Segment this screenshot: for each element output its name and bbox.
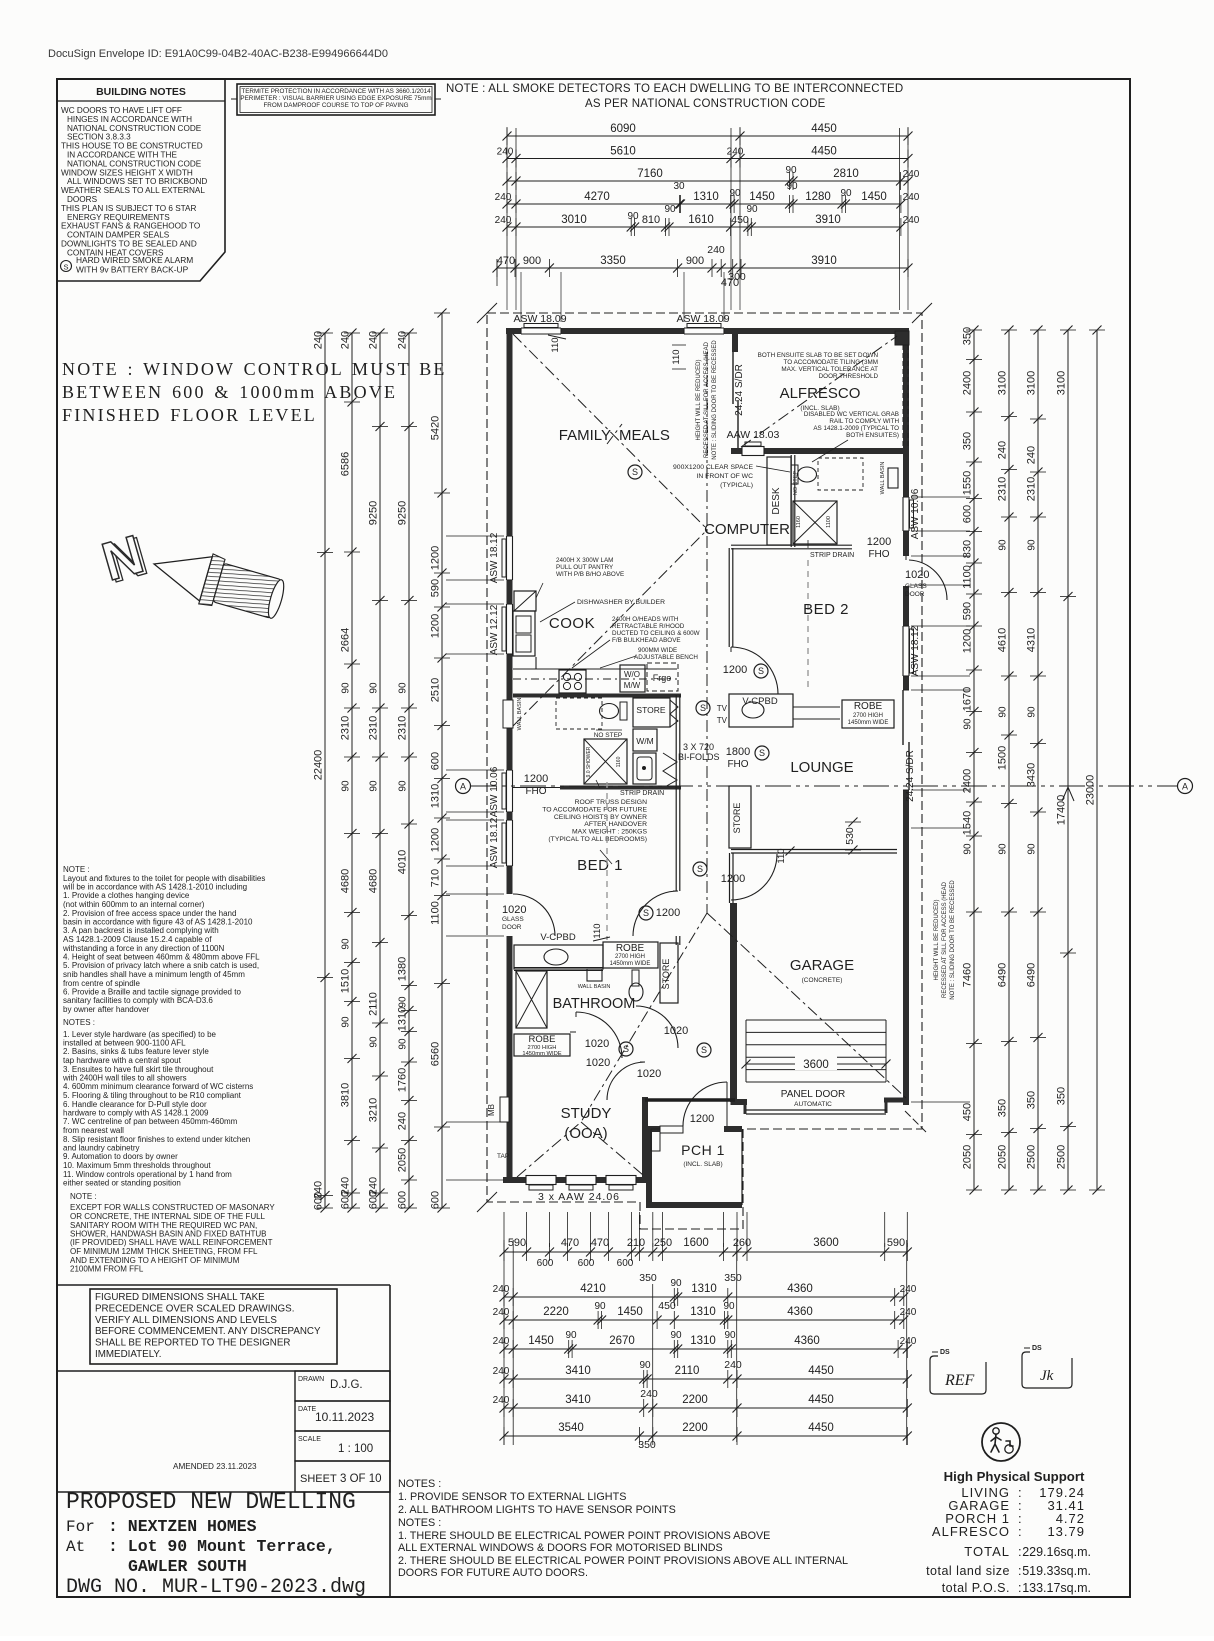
- svg-text:90: 90: [369, 780, 380, 792]
- study bottom wall: [503, 1177, 648, 1183]
- svg-text:BOTH ENSUITES): BOTH ENSUITES): [846, 432, 899, 439]
- smoke alarm bed1 door: [639, 906, 653, 920]
- svg-text:from centre of spindle: from centre of spindle: [63, 979, 140, 988]
- svg-text:AMENDED 23.11.2023: AMENDED 23.11.2023: [173, 1462, 257, 1471]
- svg-text:1020: 1020: [637, 1068, 661, 1080]
- kitchen pantry: [514, 591, 536, 611]
- svg-text:17400: 17400: [1056, 795, 1068, 826]
- study windows AAW: [526, 1176, 556, 1185]
- svg-text:IMMEDIATELY.: IMMEDIATELY.: [95, 1349, 161, 1360]
- svg-text:ALL WINDOWS SET TO BRICKBOND: ALL WINDOWS SET TO BRICKBOND: [67, 177, 207, 186]
- svg-text:OF MINIMUM 12MM THICK SHEETING: OF MINIMUM 12MM THICK SHEETING, FROM FFL: [70, 1247, 258, 1256]
- svg-text:1280: 1280: [805, 191, 831, 203]
- svg-text:900X1200 CLEAR SPACE: 900X1200 CLEAR SPACE: [673, 464, 753, 471]
- svg-text:240: 240: [727, 147, 744, 158]
- svg-text:will be in accordance with AS: will be in accordance with AS 1428.1-201…: [62, 883, 247, 892]
- svg-text:COOK: COOK: [549, 615, 595, 632]
- svg-text:1670: 1670: [962, 687, 974, 711]
- svg-text:710: 710: [430, 869, 442, 887]
- svg-text:240: 240: [493, 1307, 510, 1318]
- svg-text:350: 350: [1056, 1087, 1068, 1105]
- svg-text:AS PER NATIONAL CONSTRUCTION C: AS PER NATIONAL CONSTRUCTION CODE: [585, 98, 826, 110]
- svg-text:240: 240: [497, 147, 514, 158]
- svg-text::: :: [1018, 1581, 1021, 1595]
- left dimension chain 22400: [324, 333, 326, 1208]
- svg-text:2310: 2310: [340, 716, 352, 740]
- svg-text:AAW 18.03: AAW 18.03: [727, 429, 780, 441]
- svg-text:TO ACCOMODATE FOR FUTURE: TO ACCOMODATE FOR FUTURE: [542, 806, 647, 813]
- kitchen south wall: [513, 694, 681, 698]
- svg-text:SHOWER, HANDWASH BASIN AND FIX: SHOWER, HANDWASH BASIN AND FIXED BATHTUB: [70, 1230, 266, 1239]
- svg-text:4. Height of seat between 460: 4. Height of seat between 460mm & 480mm …: [63, 953, 260, 962]
- svg-text:HEIGHT WILL BE REDUCED): HEIGHT WILL BE REDUCED): [934, 899, 940, 980]
- svg-text:1020: 1020: [502, 904, 526, 916]
- svg-text:3100: 3100: [997, 371, 1009, 395]
- svg-text:470: 470: [591, 1237, 609, 1249]
- svg-text:450: 450: [658, 1300, 676, 1312]
- washing machine: [633, 729, 657, 751]
- garage left wall: [730, 903, 737, 1102]
- svg-text:STRIP DRAIN: STRIP DRAIN: [810, 552, 854, 559]
- svg-text:90: 90: [1027, 706, 1038, 718]
- svg-text:AND EXTENDING TO A HEIGHT OF M: AND EXTENDING TO A HEIGHT OF MINIMUM: [70, 1256, 240, 1265]
- left dimension chain 2: [351, 333, 353, 1208]
- svg-text:NOTE : SLIDING DOOR TO BE RECE: NOTE : SLIDING DOOR TO BE RECESSED: [950, 880, 956, 1000]
- svg-text::: :: [1018, 1544, 1022, 1559]
- svg-text:350: 350: [1026, 1091, 1038, 1109]
- svg-text:470: 470: [561, 1237, 579, 1249]
- svg-text:240: 240: [493, 1336, 510, 1347]
- svg-text:90: 90: [1027, 539, 1038, 551]
- svg-text:3350: 3350: [600, 255, 626, 267]
- svg-text:2510: 2510: [430, 678, 442, 702]
- svg-text:350: 350: [724, 1272, 742, 1284]
- svg-text:DOOR: DOOR: [502, 924, 522, 931]
- window ASW 12.12 left wall cook: [505, 604, 514, 654]
- svg-text:590: 590: [430, 579, 442, 597]
- svg-text:2050: 2050: [962, 1145, 974, 1169]
- svg-text:350: 350: [638, 1439, 656, 1451]
- svg-text:6490: 6490: [1026, 963, 1038, 987]
- svg-text:3600: 3600: [813, 1237, 839, 1249]
- window ASW 18.12 bed1: [505, 820, 514, 866]
- svg-text:600: 600: [313, 1192, 325, 1210]
- svg-text:90: 90: [341, 682, 352, 694]
- svg-text:90: 90: [724, 1330, 736, 1341]
- svg-text:4450: 4450: [808, 1394, 834, 1406]
- svg-text:DISABLED WC VERTICAL GRAB: DISABLED WC VERTICAL GRAB: [804, 411, 899, 418]
- svg-text:90: 90: [398, 682, 409, 694]
- ensuite clear space dashed: [818, 458, 863, 490]
- svg-text:EXCEPT FOR WALLS CONSTRUCTED O: EXCEPT FOR WALLS CONSTRUCTED OF MASONARY: [70, 1203, 275, 1212]
- svg-text:90: 90: [639, 1360, 651, 1371]
- smoke alarm bathroom hall: [619, 1042, 633, 1056]
- svg-text:2700 HIGH: 2700 HIGH: [615, 954, 645, 960]
- svg-text:6586: 6586: [340, 452, 352, 476]
- cooktop: [559, 670, 586, 693]
- lounge south wall: [731, 849, 897, 851]
- svg-text:1200: 1200: [690, 1113, 714, 1125]
- svg-text:3. Ensuites to have full skir: 3. Ensuites to have full skirt tile thro…: [63, 1065, 214, 1074]
- svg-text:CEILING HOISTS BY OWNER: CEILING HOISTS BY OWNER: [554, 814, 647, 821]
- svg-text:ASW 10.06: ASW 10.06: [489, 766, 500, 817]
- svg-text:1760: 1760: [397, 1068, 409, 1092]
- top dimension extension lines: [506, 128, 508, 280]
- svg-text:1020: 1020: [586, 1057, 610, 1069]
- svg-text:590: 590: [887, 1237, 905, 1249]
- roof hip bottom left: [513, 532, 705, 726]
- svg-text:810: 810: [642, 214, 660, 226]
- smoke alarm hall south: [697, 1043, 711, 1057]
- svg-text:1500: 1500: [997, 746, 1009, 770]
- svg-text:590: 590: [962, 602, 974, 620]
- hall east wall stub: [729, 853, 731, 903]
- hall door arc: [731, 854, 777, 900]
- bathroom shower: [516, 971, 547, 1028]
- svg-text:1. Lever style hardware (as s: 1. Lever style hardware (as specified) t…: [63, 1030, 217, 1039]
- svg-text:VERIFY ALL DIMENSIONS AND LEVE: VERIFY ALL DIMENSIONS AND LEVELS: [95, 1315, 277, 1326]
- svg-text:4210: 4210: [580, 1283, 606, 1295]
- svg-text:90: 90: [369, 682, 380, 694]
- svg-text:2050: 2050: [397, 1148, 409, 1172]
- kitchen bench line: [513, 668, 677, 670]
- svg-text:1200: 1200: [723, 664, 747, 676]
- svg-text:3100: 3100: [1056, 371, 1068, 395]
- svg-text:BETWEEN 600 & 1000mm ABOVE: BETWEEN 600 & 1000mm ABOVE: [62, 382, 397, 402]
- svg-text:(CONCRETE): (CONCRETE): [802, 977, 843, 984]
- svg-text:240: 240: [640, 1388, 658, 1400]
- svg-text:total land size: total land size: [926, 1564, 1010, 1578]
- smoke alarm legend symbol: [61, 261, 72, 272]
- svg-text:4310: 4310: [1026, 628, 1038, 652]
- svg-text:W/M: W/M: [636, 736, 653, 746]
- svg-text:110: 110: [776, 848, 787, 863]
- svg-text:4680: 4680: [340, 869, 352, 893]
- svg-text:2664: 2664: [340, 628, 352, 652]
- svg-text:TO ACCOMODATE TILING (3MM: TO ACCOMODATE TILING (3MM: [784, 359, 878, 366]
- signature box REF: [930, 1356, 986, 1394]
- right dimension chain inner: [973, 330, 975, 1190]
- svg-text:240: 240: [493, 1366, 510, 1377]
- svg-text:240: 240: [997, 441, 1009, 459]
- svg-text:5. Provision of privacy latch: 5. Provision of privacy latch where a sn…: [63, 961, 259, 970]
- alfresco open edge dashed: [902, 345, 904, 447]
- svg-text:PERIMETER : VISUAL BARRIER USI: PERIMETER : VISUAL BARRIER USING EDGE EX…: [240, 95, 431, 102]
- svg-text:BED 1: BED 1: [577, 857, 623, 874]
- smoke alarm kitchen hall: [696, 701, 710, 715]
- svg-text:NATIONAL CONSTRUCTION CODE: NATIONAL CONSTRUCTION CODE: [67, 159, 202, 168]
- svg-text:4. 600mm minimum clearance fo: 4. 600mm minimum clearance forward of WC…: [63, 1082, 253, 1091]
- svg-text:600: 600: [430, 1191, 442, 1209]
- svg-text:2050: 2050: [997, 1145, 1009, 1169]
- svg-text:IN FRONT OF WC: IN FRONT OF WC: [696, 473, 753, 480]
- hall south wall at porch: [645, 1126, 683, 1132]
- svg-text:MB: MB: [487, 1104, 496, 1116]
- svg-text:PROPOSED NEW DWELLING: PROPOSED NEW DWELLING: [66, 1489, 356, 1515]
- svg-text:WALL BASIN: WALL BASIN: [880, 462, 886, 495]
- ensuite left wall: [790, 455, 792, 547]
- svg-text:3910: 3910: [815, 214, 841, 226]
- svg-text:S: S: [697, 864, 703, 874]
- svg-text:4450: 4450: [811, 146, 837, 158]
- svg-text:BATHROOM: BATHROOM: [553, 996, 636, 1012]
- svg-text:ROBE: ROBE: [854, 701, 883, 712]
- garage bottom wall jambs: [731, 1099, 748, 1105]
- svg-text:RETRACTABLE R/HOOD: RETRACTABLE R/HOOD: [612, 623, 685, 630]
- svg-text:5610: 5610: [610, 146, 636, 158]
- svg-text:1600: 1600: [683, 1237, 709, 1249]
- svg-text:90: 90: [594, 1301, 606, 1312]
- svg-text:2220: 2220: [543, 1306, 569, 1318]
- laundry tub: [633, 753, 656, 784]
- svg-text:: NEXTZEN HOMES: : NEXTZEN HOMES: [108, 1517, 257, 1536]
- store bed hall: [660, 943, 678, 1003]
- svg-text:DOOR THRESHOLD: DOOR THRESHOLD: [819, 373, 879, 380]
- svg-text:1200: 1200: [430, 546, 442, 570]
- svg-text:THIS PLAN IS SUBJECT TO 6 STAR: THIS PLAN IS SUBJECT TO 6 STAR: [61, 204, 197, 213]
- left dimension chain 5: [441, 313, 443, 1208]
- svg-text:2810: 2810: [833, 168, 859, 180]
- svg-text:4360: 4360: [787, 1306, 813, 1318]
- svg-text:DESK: DESK: [771, 487, 782, 515]
- svg-text:110: 110: [592, 923, 603, 938]
- svg-text:NOTE :: NOTE :: [63, 865, 90, 874]
- svg-text:590: 590: [508, 1237, 526, 1249]
- svg-text:1310: 1310: [693, 191, 719, 203]
- svg-text:2400: 2400: [962, 769, 974, 793]
- svg-text:BI-FOLDS: BI-FOLDS: [678, 752, 720, 762]
- svg-text:1. Provide a clothes hanging: 1. Provide a clothes hanging device: [63, 891, 190, 900]
- svg-text:NOTES :: NOTES :: [398, 1517, 441, 1529]
- svg-text:90: 90: [723, 1301, 735, 1312]
- title table sheet row: [295, 1461, 390, 1492]
- porch left wall: [646, 1126, 652, 1208]
- svg-text:NOTES :: NOTES :: [63, 1018, 95, 1027]
- svg-text:600: 600: [962, 505, 974, 523]
- svg-text:PRECEDENCE OVER SCALED DRAWING: PRECEDENCE OVER SCALED DRAWINGS.: [95, 1303, 294, 1314]
- svg-text:4610: 4610: [997, 628, 1009, 652]
- svg-text:STORE: STORE: [636, 705, 665, 715]
- svg-text:24.24 S/DR: 24.24 S/DR: [905, 750, 916, 802]
- bed2 vanity cupboard: [729, 694, 793, 727]
- wall basin laundry: [503, 700, 513, 728]
- svg-text:240: 240: [495, 215, 512, 226]
- svg-text:4450: 4450: [808, 1365, 834, 1377]
- svg-text:GLASS: GLASS: [502, 916, 524, 923]
- svg-text:1540: 1540: [962, 811, 974, 835]
- svg-text:GAWLER SOUTH: GAWLER SOUTH: [128, 1557, 247, 1576]
- svg-text:ASW 18.09: ASW 18.09: [513, 313, 566, 325]
- svg-text:2. THERE SHOULD BE ELECTRICAL: 2. THERE SHOULD BE ELECTRICAL POWER POIN…: [398, 1555, 848, 1567]
- svg-text:V-CPBD: V-CPBD: [742, 696, 778, 707]
- svg-text:IN ACCORDANCE WITH THE: IN ACCORDANCE WITH THE: [67, 151, 177, 160]
- top wall to dim extension lines: [520, 272, 522, 322]
- svg-text:90: 90: [998, 843, 1009, 855]
- glass door 1020 bed2: [902, 556, 911, 586]
- svg-text:90: 90: [840, 188, 852, 199]
- svg-text:240: 240: [900, 1336, 917, 1347]
- svg-text:STORE: STORE: [732, 803, 742, 834]
- svg-text:90: 90: [398, 996, 409, 1008]
- window ASW 18.09 right: [684, 327, 724, 336]
- svg-text:90: 90: [963, 718, 974, 730]
- svg-text:5420: 5420: [430, 416, 442, 440]
- svg-text:FAMILY: FAMILY: [559, 427, 611, 444]
- svg-text:600: 600: [397, 1191, 409, 1209]
- svg-text:At: At: [66, 1538, 85, 1556]
- svg-text:3410: 3410: [565, 1365, 591, 1377]
- svg-text:240: 240: [1026, 446, 1038, 464]
- svg-text:2400H O/HEADS WITH: 2400H O/HEADS WITH: [612, 616, 679, 623]
- svg-text:2310: 2310: [368, 716, 380, 740]
- laundry store: [633, 698, 670, 727]
- section line A-A: [471, 785, 1177, 787]
- roof ridge dashed line: [706, 352, 708, 913]
- svg-text:350: 350: [962, 327, 974, 345]
- svg-text:For: For: [66, 1518, 95, 1536]
- right dimension chain 2: [1008, 330, 1010, 1190]
- svg-text:3430: 3430: [1026, 763, 1038, 787]
- svg-text:2310: 2310: [997, 477, 1009, 501]
- svg-text:AUTOMATIC: AUTOMATIC: [794, 1101, 832, 1108]
- svg-text:3010: 3010: [561, 214, 587, 226]
- svg-text:229.16sq.m.: 229.16sq.m.: [1022, 1545, 1091, 1559]
- svg-text:S: S: [700, 703, 706, 713]
- svg-text:ASW 12.12: ASW 12.12: [489, 604, 500, 655]
- top dimension chain rows: [507, 135, 908, 137]
- svg-text:3540: 3540: [558, 1422, 584, 1434]
- svg-text:240: 240: [313, 331, 325, 349]
- svg-text:WALL BASIN: WALL BASIN: [578, 984, 611, 990]
- bathroom wall basin: [587, 969, 602, 981]
- ensuite shower: [793, 501, 837, 544]
- svg-text:900: 900: [686, 255, 704, 267]
- svg-text:22400: 22400: [313, 750, 325, 781]
- laundry clear space dashed: [556, 698, 602, 729]
- svg-text:basin in accordance with figur: basin in accordance with figure 43 of AS…: [63, 918, 253, 927]
- building notes box outline: [57, 79, 225, 281]
- svg-text:1. PROVIDE SENSOR TO EXTERNAL: 1. PROVIDE SENSOR TO EXTERNAL LIGHTS: [398, 1491, 626, 1503]
- svg-text:TV: TV: [717, 716, 728, 725]
- svg-text:PCH 1: PCH 1: [681, 1142, 725, 1158]
- svg-text:ENERGY REQUIREMENTS: ENERGY REQUIREMENTS: [67, 213, 170, 222]
- svg-text:830: 830: [962, 540, 974, 558]
- svg-text:6090: 6090: [610, 123, 636, 135]
- svg-text:1020: 1020: [585, 1038, 609, 1050]
- svg-text:600: 600: [430, 752, 442, 770]
- svg-text:240: 240: [903, 192, 920, 203]
- study door arc: [607, 1062, 645, 1100]
- svg-text:240: 240: [368, 331, 380, 349]
- bed1 hoist dashed line: [606, 782, 608, 940]
- svg-text:2110: 2110: [675, 1365, 700, 1377]
- svg-text:2100MM FROM FFL: 2100MM FROM FFL: [70, 1265, 144, 1274]
- svg-text:OR CONCRETE, THE INTERNAL SIDE: OR CONCRETE, THE INTERNAL SIDE OF THE FU…: [70, 1212, 266, 1221]
- svg-text:470: 470: [497, 255, 515, 267]
- svg-text:90: 90: [670, 1330, 682, 1341]
- svg-text:3 X 720: 3 X 720: [683, 742, 714, 752]
- svg-text:tap hardware with a central sp: tap hardware with a central spout: [63, 1056, 182, 1065]
- svg-text:SHEET: SHEET: [300, 1473, 337, 1485]
- svg-text:519.33sq.m.: 519.33sq.m.: [1022, 1564, 1091, 1578]
- svg-text:210: 210: [627, 1237, 645, 1249]
- wall oven microwave: [620, 665, 645, 692]
- svg-text:snib handles shall have a mini: snib handles shall have a minimum length…: [63, 970, 245, 979]
- high physical support logo: [982, 1423, 1020, 1461]
- svg-text:NOTES :: NOTES :: [398, 1478, 441, 1490]
- svg-text:TOTAL: TOTAL: [964, 1544, 1010, 1559]
- bed1 vanity cupboard: [514, 945, 603, 969]
- section marker arrow right wall: [1062, 787, 1074, 801]
- svg-text:1310: 1310: [690, 1335, 716, 1347]
- svg-text:STRIP DRAIN: STRIP DRAIN: [620, 790, 664, 797]
- alfresco roof diagonal: [741, 336, 897, 447]
- svg-text:240: 240: [900, 1284, 917, 1295]
- svg-text:2200: 2200: [682, 1422, 708, 1434]
- svg-text:W/O: W/O: [624, 670, 640, 679]
- svg-text:WITH 9v BATTERY BACK-UP: WITH 9v BATTERY BACK-UP: [76, 264, 189, 274]
- svg-text:THIS HOUSE TO BE CONSTRUCTED: THIS HOUSE TO BE CONSTRUCTED: [61, 142, 203, 151]
- svg-text:Jk: Jk: [1040, 1368, 1054, 1384]
- svg-text:FHO: FHO: [727, 759, 748, 770]
- svg-text:9250: 9250: [397, 501, 409, 525]
- bathroom north wall: [514, 967, 603, 969]
- window AAW 18.03: [742, 447, 764, 456]
- svg-text:BOTH ENSUITE SLAB TO BE SET DO: BOTH ENSUITE SLAB TO BE SET DOWN: [758, 352, 879, 359]
- termite protection note box: [237, 84, 435, 115]
- bed2 hoist dashed line: [807, 560, 809, 690]
- svg-text:FINISHED FLOOR LEVEL: FINISHED FLOOR LEVEL: [62, 405, 317, 425]
- bathroom south wall: [570, 1031, 576, 1033]
- svg-text:1100: 1100: [826, 516, 832, 528]
- svg-text:1310: 1310: [690, 1306, 716, 1318]
- meter box MB: [500, 1097, 509, 1122]
- svg-text:ALL EXTERNAL WINDOWS & DOORS F: ALL EXTERNAL WINDOWS & DOORS FOR MOTORIS…: [398, 1542, 723, 1554]
- svg-text:AS 1428.1-2009 (TYPICAL TO: AS 1428.1-2009 (TYPICAL TO: [813, 425, 899, 432]
- svg-text:ASW 18.12: ASW 18.12: [489, 532, 500, 583]
- svg-text:ADJUSTABLE BENCH: ADJUSTABLE BENCH: [634, 654, 698, 661]
- alfresco left sliding door 24.24 S/DR: [732, 334, 738, 352]
- svg-text:1200: 1200: [867, 536, 891, 548]
- right dimension chain 4: [1067, 330, 1069, 1190]
- svg-text:Layout and fixtures to the toi: Layout and fixtures to the toilet for pe…: [63, 874, 265, 883]
- svg-text:ROBE: ROBE: [529, 1034, 556, 1045]
- svg-text:and laundry cabinetry: and laundry cabinetry: [63, 1144, 140, 1153]
- glass door 1020 bed1: [505, 894, 514, 936]
- svg-text:133.17sq.m.: 133.17sq.m.: [1022, 1581, 1091, 1595]
- window ASW 10.06 right wall: [902, 497, 911, 531]
- study hall wall: [645, 1098, 735, 1102]
- study right wall: [642, 1097, 648, 1183]
- svg-text:1450mm WIDE: 1450mm WIDE: [610, 961, 651, 967]
- bed1 door arc: [633, 891, 678, 936]
- svg-text:NO STEP: NO STEP: [594, 732, 623, 739]
- svg-text:90: 90: [998, 539, 1009, 551]
- front door threshold: [660, 1126, 683, 1133]
- svg-text:1450: 1450: [528, 1335, 554, 1347]
- svg-text:TAP: TAP: [497, 1153, 509, 1160]
- svg-text:10. Maximum 5mm thresholds thr: 10. Maximum 5mm thresholds throughout: [63, 1161, 211, 1170]
- svg-text:6. Provide a Braille and tact: 6. Provide a Braille and tactile signage…: [63, 988, 241, 997]
- porch bottom wall: [646, 1202, 742, 1208]
- smoke alarm hall: [693, 862, 707, 876]
- svg-text:CONTAIN DAMPER SEALS: CONTAIN DAMPER SEALS: [67, 231, 170, 240]
- svg-text:NOTE : ALL SMOKE DETECTORS TO: NOTE : ALL SMOKE DETECTORS TO EACH DWELL…: [446, 83, 903, 95]
- svg-text:ALFRESCO: ALFRESCO: [780, 385, 861, 402]
- svg-text:BUILDING NOTES: BUILDING NOTES: [96, 86, 186, 98]
- svg-text:DOWNLIGHTS TO BE SEALED AND: DOWNLIGHTS TO BE SEALED AND: [61, 240, 197, 249]
- svg-text:V-CPBD: V-CPBD: [540, 932, 576, 943]
